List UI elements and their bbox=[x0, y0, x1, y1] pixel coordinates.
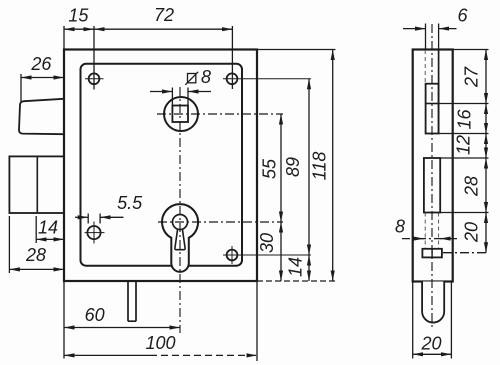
screw hole bottom-left (5.5) bbox=[87, 226, 100, 239]
svg-text:28: 28 bbox=[462, 176, 482, 197]
ext line x=94 through top-left hole bbox=[93, 26, 95, 90]
bottom pin bbox=[128, 281, 136, 321]
screw hole top-left bbox=[89, 73, 100, 84]
svg-text:16: 16 bbox=[455, 109, 475, 130]
svg-text:100: 100 bbox=[145, 333, 175, 353]
svg-text:8: 8 bbox=[201, 67, 211, 87]
bolt in side view bbox=[424, 158, 440, 213]
svg-text:89: 89 bbox=[283, 157, 303, 177]
svg-text:26: 26 bbox=[30, 54, 52, 74]
keyhole boss outline bbox=[162, 204, 198, 272]
dim 5.5 bbox=[87, 214, 89, 224]
svg-text:5.5: 5.5 bbox=[117, 193, 143, 213]
faceplate edge solid bbox=[438, 50, 440, 134]
ext line x=232.4 through top-right hole bbox=[231, 26, 233, 89]
dim line 89/14 bbox=[308, 79, 310, 255]
lock case inner box bbox=[81, 64, 243, 266]
dim square 8 bbox=[171, 88, 173, 106]
svg-text:28: 28 bbox=[25, 245, 46, 265]
svg-text:6: 6 bbox=[457, 6, 468, 26]
lock plate outline bbox=[64, 50, 257, 282]
right side extension lines bbox=[257, 49, 336, 51]
screw hole bottom-right bbox=[227, 250, 238, 261]
keyhole slot bbox=[175, 229, 185, 250]
svg-text:14: 14 bbox=[38, 218, 58, 238]
dim line 55/30 bbox=[280, 114, 282, 222]
center line horizontal (keyhole) bbox=[158, 221, 283, 223]
right chain extension lines bbox=[453, 49, 489, 51]
square symbol bbox=[188, 74, 196, 83]
screw hole top-right bbox=[227, 73, 238, 84]
dim 100 bbox=[64, 354, 150, 356]
dim 15 bbox=[64, 28, 94, 30]
svg-text:27: 27 bbox=[461, 66, 481, 88]
svg-text:30: 30 bbox=[257, 233, 277, 253]
svg-text:20: 20 bbox=[420, 334, 441, 354]
svg-text:72: 72 bbox=[154, 5, 174, 25]
bottom extensions bbox=[63, 281, 65, 359]
svg-text:15: 15 bbox=[68, 6, 89, 26]
ext line plate left above bbox=[63, 26, 65, 50]
latch bolt (left) bbox=[19, 99, 64, 134]
svg-text:14: 14 bbox=[286, 257, 306, 277]
dead bolt (left) bbox=[9, 156, 64, 213]
side plate outline bbox=[413, 50, 453, 282]
dim 60 bbox=[64, 327, 180, 329]
latch in side view bbox=[426, 84, 439, 134]
dim 14 (bolt) bbox=[35, 216, 37, 243]
center line horizontal (spindle) bbox=[157, 113, 283, 115]
dim 72 bbox=[94, 28, 232, 30]
svg-text:60: 60 bbox=[85, 305, 105, 325]
spindle follower circle bbox=[164, 97, 198, 131]
center line vertical (spindle/keyhole axis) bbox=[179, 87, 181, 333]
chain dims 27/16/12/28/20 bbox=[485, 50, 487, 104]
dim 6 top bbox=[425, 24, 427, 50]
svg-text:20: 20 bbox=[462, 222, 482, 243]
svg-text:8: 8 bbox=[395, 217, 405, 237]
svg-text:55: 55 bbox=[260, 158, 280, 179]
cylinder protrusion bbox=[422, 282, 444, 323]
dim line 118 bbox=[332, 50, 334, 282]
dim 28 (bolt) bbox=[8, 216, 10, 273]
svg-text:12: 12 bbox=[454, 135, 474, 155]
bottom 20 dim bbox=[412, 282, 414, 359]
keyhole circle bbox=[173, 215, 188, 230]
small lock screw box bbox=[422, 249, 442, 258]
dead bolt face line bbox=[36, 156, 38, 213]
faceplate hidden edges bbox=[438, 213, 440, 249]
side center line bbox=[431, 24, 433, 328]
spindle square hole bbox=[172, 106, 188, 123]
dim 8 leader bbox=[402, 238, 457, 240]
dim 26 bbox=[20, 74, 22, 102]
svg-text:118: 118 bbox=[310, 152, 330, 181]
